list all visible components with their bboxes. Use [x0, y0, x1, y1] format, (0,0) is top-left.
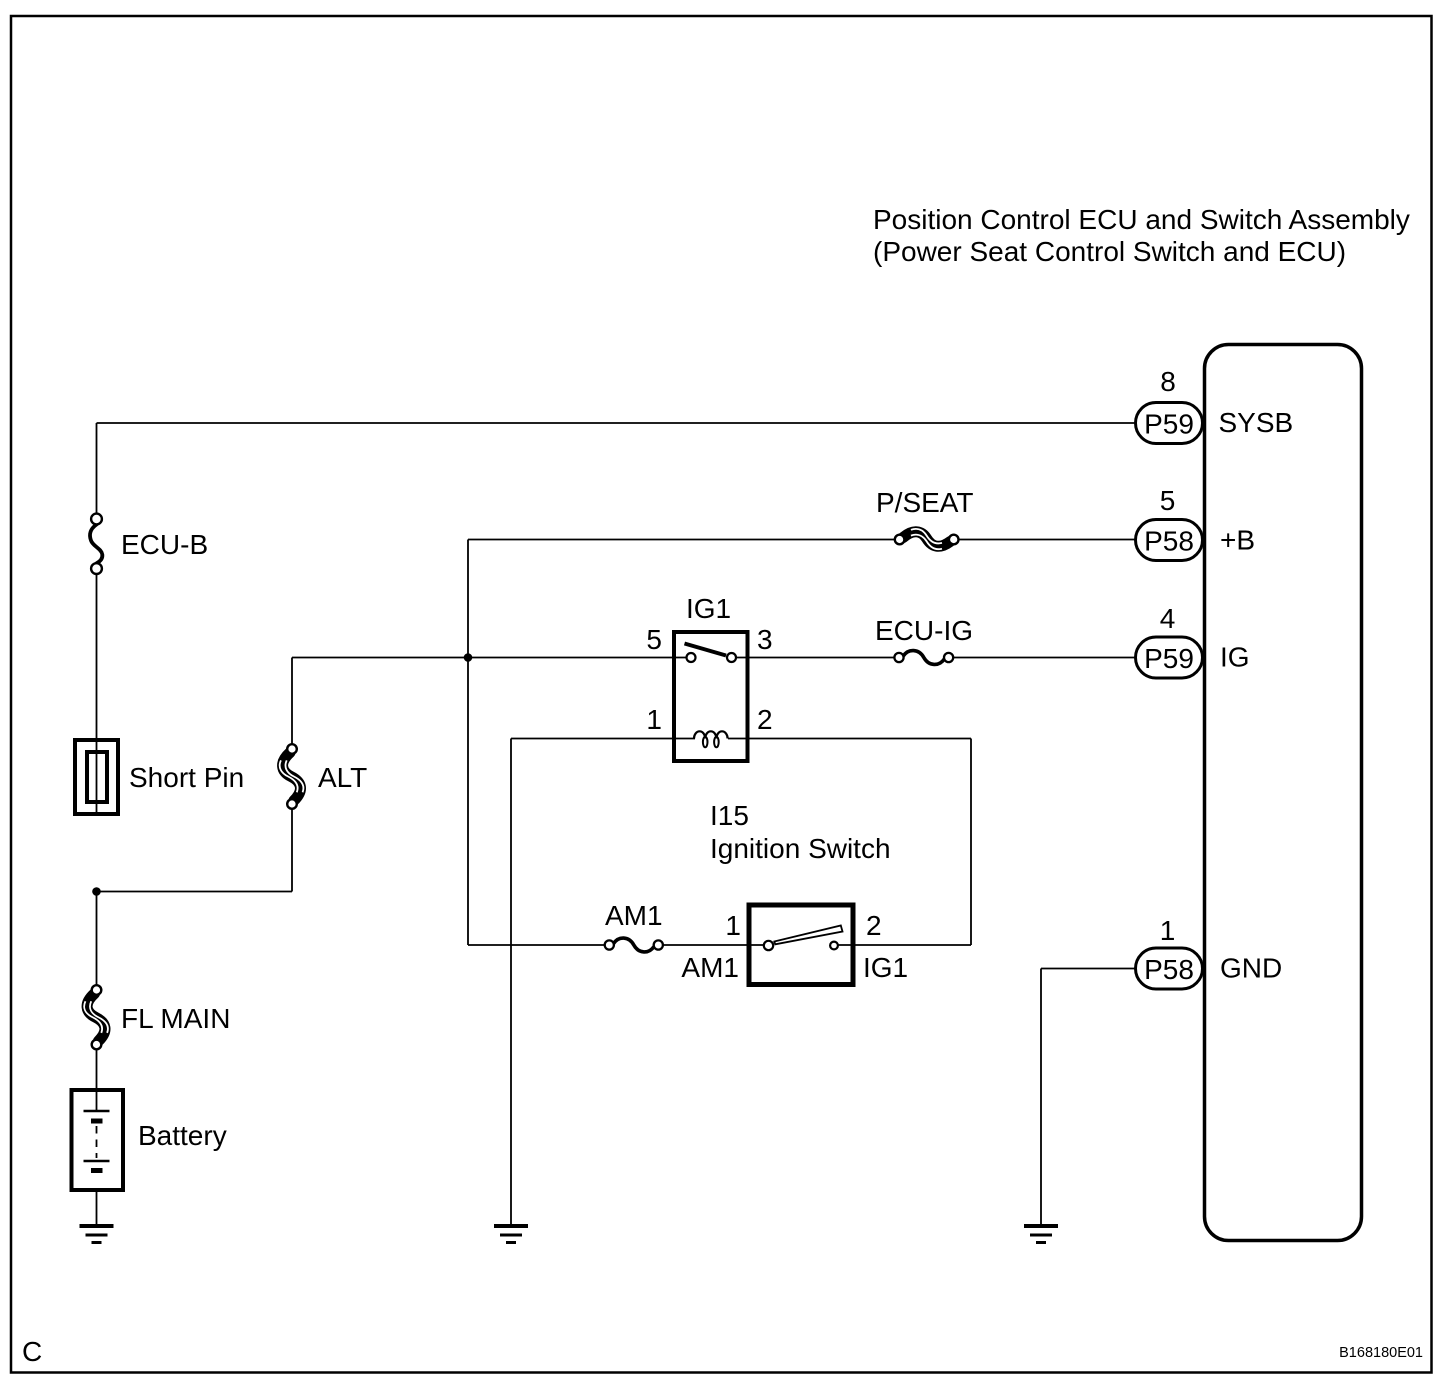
svg-text:P/SEAT: P/SEAT [876, 487, 974, 518]
svg-text:P59: P59 [1144, 409, 1194, 440]
svg-text:IG: IG [1220, 642, 1250, 673]
svg-text:GND: GND [1220, 953, 1282, 984]
svg-text:2: 2 [757, 704, 773, 735]
svg-text:SYSB: SYSB [1219, 407, 1294, 438]
svg-text:1: 1 [725, 910, 741, 941]
svg-text:P58: P58 [1144, 954, 1194, 985]
svg-text:FL MAIN: FL MAIN [121, 1003, 230, 1034]
svg-text:4: 4 [1160, 603, 1176, 634]
svg-text:ECU-B: ECU-B [121, 529, 208, 560]
svg-text:AM1: AM1 [681, 952, 739, 983]
svg-text:AM1: AM1 [605, 900, 663, 931]
svg-text:+B: +B [1220, 525, 1255, 556]
svg-text:8: 8 [1160, 366, 1176, 397]
svg-text:1: 1 [646, 704, 662, 735]
svg-text:Ignition Switch: Ignition Switch [710, 833, 891, 864]
svg-text:P59: P59 [1144, 643, 1194, 674]
svg-text:5: 5 [1160, 485, 1176, 516]
svg-text:1: 1 [1160, 915, 1176, 946]
svg-text:P58: P58 [1144, 526, 1194, 557]
svg-text:ALT: ALT [318, 762, 367, 793]
svg-text:Battery: Battery [138, 1120, 227, 1151]
svg-text:C: C [22, 1336, 42, 1367]
svg-text:B168180E01: B168180E01 [1339, 1345, 1423, 1361]
svg-text:IG1: IG1 [863, 952, 908, 983]
svg-text:5: 5 [646, 624, 662, 655]
svg-text:2: 2 [866, 910, 882, 941]
svg-text:ECU-IG: ECU-IG [875, 615, 973, 646]
svg-text:Short Pin: Short Pin [129, 762, 244, 793]
svg-text:3: 3 [757, 624, 773, 655]
svg-text:IG1: IG1 [686, 593, 731, 624]
svg-text:Position Control ECU and Switc: Position Control ECU and Switch Assembly [873, 204, 1410, 235]
svg-text:(Power Seat Control Switch and: (Power Seat Control Switch and ECU) [873, 236, 1346, 267]
svg-text:I15: I15 [710, 800, 749, 831]
